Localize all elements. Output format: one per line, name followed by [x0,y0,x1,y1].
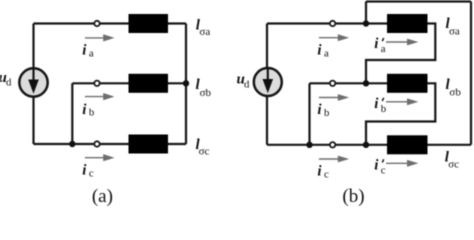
svg-text:d: d [6,77,12,89]
inductor l_sigma-b (a) [129,74,169,93]
wire: (b) inductor a U-turn to node b [366,24,435,84]
label i_b (a) [82,102,94,119]
current arrow i_b (b) [319,94,349,101]
svg-text:b: b [381,103,386,115]
svg-text:σa: σa [199,26,210,38]
label u_d (b) [237,72,251,91]
wire: (a) bottom branch [34,143,129,145]
current arrow i_b (a) [85,93,115,100]
svg-text:b: b [324,107,329,119]
svg-text:a: a [381,43,386,55]
current source u_d (a) [19,68,47,96]
label i_c (a) [82,163,94,180]
current arrow i_a (a) [85,34,115,41]
terminal node b (b) [330,81,335,86]
svg-text:σc: σc [199,146,210,158]
svg-text:b: b [89,107,94,119]
wire: (b) node a stub to top [365,2,367,24]
svg-text:a: a [89,47,94,59]
inductor l_sigma-c (a) [129,135,169,154]
terminal node c (a) [94,141,99,146]
junction dot (a) bottom node [69,141,75,147]
wire: (a) inductor b output [168,82,186,84]
junction dot node a (b) [363,20,369,26]
inductor l_sigma-a (a) [129,14,169,33]
wire: (b) branch b drop to bottom [308,83,310,145]
junction dot node c (b) [363,142,369,148]
wire: (a) inductor c output [168,143,186,145]
wire: (b) bottom branch c [267,144,387,146]
terminal node b (a) [94,81,99,86]
label l_sigma-c (a) [196,137,210,158]
wire: (b) inductor c output to right bus [428,144,472,146]
current arrow i_a (b) [319,34,349,41]
wire: (b) branch b [310,82,388,84]
current arrow i-prime_b (b) [386,98,418,105]
terminal node a (b) [330,21,335,26]
svg-text:σa: σa [449,25,460,37]
junction dot (a) right bus node b [183,80,189,86]
wire: (a) top branch [34,22,129,24]
inductor l_sigma-b (b) [387,74,428,93]
label u_d (a) [0,70,12,89]
label i-prime_a (b) [374,36,386,55]
wire: (b) branch a [267,22,387,24]
current arrow i-prime_a (b) [386,39,418,46]
svg-text:a: a [324,47,329,59]
label i_b (b) [317,102,329,119]
svg-text:c: c [381,164,386,176]
svg-text:d: d [244,78,250,90]
label l_sigma-a (a) [196,17,211,38]
label i-prime_c (b) [374,157,386,176]
svg-text:σc: σc [448,158,459,170]
current arrow i_c (b) [319,156,349,163]
svg-text:c: c [89,168,94,180]
svg-text:(b): (b) [342,186,364,206]
wire: (a) left bus [32,24,34,145]
inductor l_sigma-a (b) [387,14,428,33]
label l_sigma-c (b) [445,150,459,171]
current arrow i_c (a) [85,154,115,161]
terminal node c (b) [330,142,335,147]
label i_a (b) [317,43,329,60]
wire: (a) middle branch [72,82,128,84]
junction dot node b (b) [363,80,369,86]
terminal node a (a) [94,21,99,26]
junction dot bottom branch (b) [306,142,312,148]
wire: (b) right bus [470,2,472,145]
wire: (b) inductor b U-turn to node c [366,83,435,145]
wire: (b) top return [366,0,471,2]
label i-prime_b (b) [374,96,386,115]
label l_sigma-b (a) [196,77,212,99]
label i_a (a) [82,42,94,59]
current arrow i-prime_c (b) [386,160,418,167]
label l_sigma-b (b) [446,77,462,99]
wire: (b) left bus [266,24,268,145]
svg-text:σb: σb [449,87,461,99]
wire: (a) right bus [185,24,187,145]
svg-text:(a): (a) [92,186,113,206]
label l_sigma-a (b) [446,16,460,37]
wire: (a) middle branch drop to bottom [71,83,73,144]
svg-text:c: c [324,168,329,180]
current source u_d (b) [254,68,282,96]
label i_c (b) [317,164,329,181]
inductor l_sigma-c (b) [387,135,428,154]
wire: (a) inductor a output [168,22,186,24]
svg-text:σb: σb [200,87,212,99]
